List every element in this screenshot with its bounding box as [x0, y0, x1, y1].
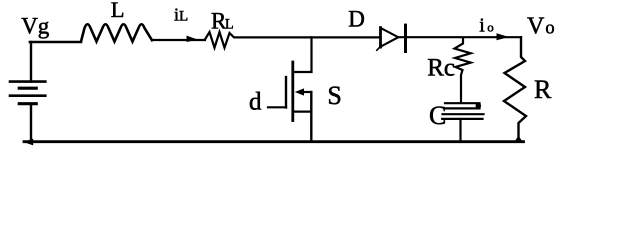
diode D	[377, 25, 521, 51]
svg-text:R: R	[534, 75, 552, 104]
resistor R	[504, 37, 526, 141]
battery Vg	[10, 42, 45, 141]
arrowhead at R bottom junction	[514, 136, 522, 142]
svg-text:Vo: Vo	[527, 13, 555, 39]
resistor Rc	[455, 38, 471, 103]
mosfet gate lead	[268, 106, 286, 108]
svg-text:D: D	[348, 7, 365, 32]
mosfet gate bar	[285, 77, 287, 108]
svg-text:C: C	[429, 101, 446, 130]
svg-text:i: i	[479, 14, 485, 36]
mosfet source lead	[293, 110, 312, 112]
svg-text:RL: RL	[211, 8, 234, 33]
inductor L	[81, 24, 152, 41]
svg-text:o: o	[487, 19, 494, 34]
svg-text:Rc: Rc	[427, 55, 455, 82]
svg-text:S: S	[327, 81, 341, 110]
mosfet source vertical	[310, 92, 312, 141]
ground-side arrow bottom left	[23, 139, 33, 146]
mosfet channel bar	[291, 62, 294, 121]
arrow iL	[187, 36, 199, 42]
mosfet body arrow	[295, 88, 304, 95]
wire inductor to RL	[152, 39, 205, 41]
wire top-left	[30, 41, 81, 43]
svg-text:L: L	[111, 0, 125, 22]
svg-text:iL: iL	[174, 5, 188, 25]
capacitor C	[442, 103, 483, 141]
svg-text:d: d	[249, 88, 262, 115]
bottom rail	[24, 140, 524, 143]
resistor RL	[205, 32, 380, 48]
arrow io	[497, 33, 510, 40]
mosfet S drain connection	[293, 37, 312, 72]
svg-text:Vg: Vg	[21, 14, 50, 39]
